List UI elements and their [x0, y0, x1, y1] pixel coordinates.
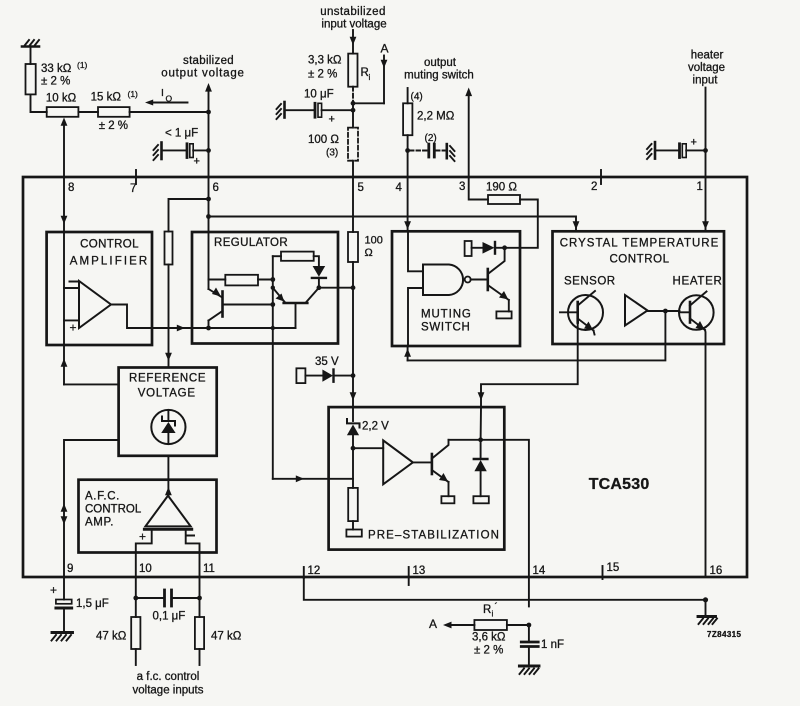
- node diode / Q1 collector / 190 Ohm: [502, 245, 507, 250]
- op-amp U1 triangle: [79, 281, 111, 328]
- wire pin 10 down: [135, 577, 137, 617]
- pin 7 tick: [135, 170, 137, 184]
- diode regulator (down): [312, 266, 326, 288]
- wire rail pin6 to crystal block with down arrow: [209, 217, 580, 232]
- wire pin 4 top with (4) label: [408, 88, 423, 103]
- svg-text:11: 11: [203, 563, 215, 575]
- wire control amp rail to reference (up arrow): [61, 345, 119, 384]
- svg-text:3: 3: [459, 181, 465, 193]
- wire pin6 to R base resistor: [209, 279, 226, 281]
- node output / pin5 rail: [351, 285, 356, 290]
- label a.f.c. control voltage inputs: [133, 671, 204, 697]
- svg-text:TCA530: TCA530: [589, 476, 650, 493]
- wire Q4 collector rail to output node: [449, 439, 481, 441]
- resistor pre-stab: [348, 488, 358, 521]
- svg-text:PRE–STABILIZATION: PRE–STABILIZATION: [368, 530, 500, 542]
- wire gate input 1: [408, 231, 423, 271]
- resistor between blocks (pin6 to ref): [165, 199, 209, 265]
- minus label afc: [187, 535, 195, 537]
- svg-text:+: +: [50, 583, 57, 597]
- vertical rail inside regulator down to pre-stabilization: [272, 256, 274, 479]
- svg-text:7: 7: [130, 183, 136, 195]
- svg-text:CONTROL: CONTROL: [609, 254, 669, 266]
- wire muting output down to rail with up arrow: [404, 346, 411, 360]
- zener reference (circle): [151, 410, 185, 444]
- node 35V junction: [351, 373, 356, 378]
- wire 10k to 15k: [78, 111, 98, 113]
- wire pin 4 into muting switch with down arrow: [404, 177, 411, 231]
- svg-text:(1): (1): [77, 60, 88, 70]
- transistor Q1 collector: [488, 248, 505, 274]
- svg-text:1 nF: 1 nF: [541, 639, 564, 651]
- svg-text:± 2 %: ± 2 %: [308, 69, 337, 81]
- node heater cap / pin1: [703, 148, 708, 153]
- svg-text:100 Ω: 100 Ω: [308, 134, 339, 146]
- svg-text:13: 13: [413, 565, 426, 577]
- svg-text:stabilized: stabilized: [183, 55, 234, 67]
- amplifier A3 triangle: [383, 440, 413, 484]
- svg-text:+: +: [329, 114, 335, 126]
- wire op-amp output to regulator with right arrow: [111, 305, 296, 332]
- svg-text:< 1 μF: < 1 μF: [165, 128, 198, 140]
- block CRYSTAL TEMPERATURE CONTROL: [553, 231, 725, 344]
- svg-text:10: 10: [139, 563, 152, 575]
- resistor 190 Ohm: [486, 182, 520, 205]
- svg-text:7Z84315: 7Z84315: [707, 630, 742, 639]
- node (2)-cap / pin4 line: [405, 148, 410, 153]
- transistor T2 base bar: [284, 302, 308, 305]
- svg-text:output: output: [424, 57, 457, 69]
- capacitor 10 uF with ground: [277, 89, 354, 126]
- transistor T2 (power pnp) emitter leg: [271, 286, 285, 303]
- resistor regulator left: [225, 275, 258, 286]
- arrow into pre-stab top: [478, 392, 485, 400]
- node diode / collector T2: [317, 285, 322, 290]
- wire heater emitter down to pin 16: [704, 330, 707, 577]
- dashed wire Ri bottom: [352, 87, 354, 104]
- svg-text:190 Ω: 190 Ω: [486, 182, 517, 194]
- transistor Q1 base bar: [486, 269, 489, 290]
- svg-text:35 V: 35 V: [315, 356, 339, 368]
- wire sensor entry inside box: [480, 407, 482, 440]
- wire non-inverting input stub: [64, 319, 79, 321]
- svg-text:REGULATOR: REGULATOR: [214, 237, 288, 249]
- svg-text:VOLTAGE: VOLTAGE: [138, 388, 196, 400]
- svg-text:9: 9: [67, 563, 73, 575]
- terminal under diode: [473, 496, 488, 503]
- svg-text:6: 6: [213, 182, 219, 194]
- svg-text:+: +: [70, 321, 77, 335]
- svg-text:output voltage: output voltage: [161, 68, 244, 80]
- label unstabilized input voltage: [320, 6, 386, 31]
- svg-text:1: 1: [697, 181, 703, 193]
- nand gate U2: [423, 265, 471, 296]
- wire node A to 100 Ohm (3): [352, 103, 354, 127]
- pin 13 tick: [408, 567, 410, 585]
- terminal resistor under Q1 emitter: [496, 311, 511, 318]
- wire pin 8 into control amplifier with down arrow: [61, 177, 68, 232]
- block REFERENCE VOLTAGE: [119, 368, 217, 456]
- svg-text:voltage: voltage: [688, 62, 725, 74]
- zener 2,2 V: [347, 407, 389, 448]
- wire amp output to heater base: [648, 310, 680, 312]
- capacitor 1 nF with ground: [519, 625, 564, 674]
- resistor Ri' 3,6 kOhm +-2% with A arrow: [429, 601, 529, 657]
- wire pin6 rail into regulator: [208, 177, 210, 280]
- svg-text:(2): (2): [425, 133, 437, 144]
- pin 15 tick: [602, 566, 604, 579]
- wire gate input 2 down to box bottom: [408, 288, 423, 346]
- svg-text:16: 16: [710, 565, 723, 577]
- svg-text:input: input: [693, 75, 719, 87]
- svg-text:+: +: [194, 156, 200, 168]
- capacitor heater input with ground: [647, 137, 706, 160]
- ground (top-left, above 33k): [22, 40, 39, 64]
- svg-text:A: A: [429, 617, 437, 631]
- resistor 100 Ohm (3) dashed optional: [308, 128, 358, 177]
- wire unstabilized input with down arrow: [350, 30, 357, 54]
- wire 33k bottom to 10k: [31, 94, 47, 112]
- svg-text:± 2 %: ± 2 %: [474, 645, 503, 657]
- IC outline TCA530: [23, 177, 747, 577]
- svg-text:47 kΩ: 47 kΩ: [96, 631, 127, 643]
- svg-text:SENSOR: SENSOR: [564, 276, 616, 288]
- svg-text:voltage inputs: voltage inputs: [133, 685, 204, 697]
- node A-wire / Ri line: [351, 101, 356, 106]
- wire sensor down to pre-stabilization entry: [481, 323, 578, 408]
- wire 190 Ohm to muting diode node: [505, 200, 538, 248]
- block REGULATOR: [192, 232, 338, 344]
- transistor Q1 emitter with arrow: [488, 285, 509, 311]
- svg-text:2,2 V: 2,2 V: [362, 421, 389, 433]
- transistor T1 base bar: [221, 292, 224, 317]
- wire pin 9 rail to reference: [64, 440, 119, 577]
- resistor 47 kOhm (pin 10): [96, 617, 140, 665]
- node zener / amp input: [351, 446, 356, 451]
- transistor Q4 emitter with arrow: [432, 470, 449, 496]
- resistor 47 kOhm (pin 11): [195, 617, 242, 665]
- svg-text:unstabilized: unstabilized: [320, 6, 386, 18]
- node pre-stab output: [478, 437, 483, 442]
- transistor T1 base wire: [224, 304, 273, 306]
- diode 35 V with terminal: [296, 356, 353, 383]
- transistor Q2 sensor: [560, 291, 603, 335]
- wire resistor down to reference voltage with down arrow: [165, 265, 172, 368]
- wire pin 3 output with up arrow: [465, 88, 472, 178]
- svg-text:HEATER: HEATER: [673, 276, 723, 288]
- terminal under resistor: [346, 521, 361, 537]
- block PRE-STABILIZATION: [329, 407, 505, 549]
- current IQ arrow: [145, 87, 188, 106]
- svg-text:± 2 %: ± 2 %: [99, 120, 128, 132]
- wire 2,2M bottom to pin 4: [407, 135, 409, 177]
- resistor 10 kOhm: [46, 93, 79, 117]
- terminal under Q4 emitter: [441, 496, 454, 503]
- svg-text:5: 5: [358, 182, 364, 194]
- svg-text:i: i: [369, 72, 371, 82]
- svg-text:100: 100: [365, 235, 383, 247]
- svg-text:(4): (4): [411, 92, 423, 103]
- svg-text:(3): (3): [326, 148, 338, 159]
- node 15k/pin6: [206, 110, 211, 115]
- label heater voltage input: [688, 50, 725, 87]
- svg-text:8: 8: [68, 182, 74, 194]
- svg-text:A.F.C.: A.F.C.: [85, 491, 120, 503]
- wire afc input pin 10: [136, 529, 152, 577]
- svg-text:10 kΩ: 10 kΩ: [46, 93, 77, 105]
- svg-text:AMPLIFIER: AMPLIFIER: [70, 256, 150, 268]
- svg-text:15 kΩ: 15 kΩ: [91, 92, 122, 104]
- svg-text:SWITCH: SWITCH: [421, 322, 471, 334]
- node 10uF / Ri line: [351, 108, 356, 113]
- wire gate output to Q1 base: [471, 279, 487, 281]
- svg-text:+: +: [139, 530, 146, 544]
- wire pin 5 into 100 Ohm: [352, 177, 354, 232]
- svg-text:47 kΩ: 47 kΩ: [211, 631, 242, 643]
- wire pre-stab output to pin 14: [481, 440, 529, 607]
- svg-text:I: I: [161, 87, 164, 99]
- wire pin 6 with up arrow (stabilized output): [205, 83, 212, 177]
- svg-text:10 μF: 10 μF: [304, 89, 334, 101]
- svg-text:2: 2: [591, 181, 597, 193]
- label stabilized output voltage: [161, 55, 244, 80]
- transistor T1 collector: [209, 311, 223, 328]
- amplifier A2 triangle: [625, 295, 648, 326]
- resistor 15 kOhm (1) +-2%: [91, 89, 138, 132]
- svg-text:2,2 MΩ: 2,2 MΩ: [417, 111, 455, 123]
- svg-text:15: 15: [607, 562, 620, 574]
- node T1 base / rail: [270, 302, 275, 307]
- svg-text:input voltage: input voltage: [321, 19, 386, 31]
- wire pin 12 rail to ground node: [304, 577, 706, 600]
- svg-text:0,1 μF: 0,1 μF: [153, 611, 186, 623]
- wire pin 11 down: [199, 577, 201, 617]
- resistor Ri 3,3 kOhm +-2%: [308, 54, 371, 87]
- wire afc input pin 11: [186, 529, 200, 577]
- diode muting with terminal: [465, 241, 505, 256]
- node rail / output wire: [271, 326, 275, 330]
- resistor regulator top: [273, 252, 319, 266]
- svg-text:CONTROL: CONTROL: [85, 504, 142, 516]
- svg-text:(1): (1): [128, 89, 139, 99]
- node rail top: [270, 277, 275, 282]
- wire pin 1 heater input: [705, 88, 707, 177]
- node 0,1uF right: [197, 596, 202, 601]
- capacitor < 1 uF with ground: [154, 128, 209, 168]
- capacitor 1,5 uF with ground (pin 9): [50, 577, 109, 641]
- transistor T1 (pnp) emitter: [209, 280, 222, 298]
- node 0,1uF left: [133, 596, 138, 601]
- double arrows afc rail: [61, 504, 68, 525]
- pin 2 tick: [600, 170, 602, 184]
- wire node down to resistor: [352, 448, 354, 488]
- node pin6 / rail to muting: [206, 214, 211, 219]
- svg-text:Q: Q: [166, 94, 173, 104]
- wire T2 base down to control rail: [295, 303, 297, 328]
- wire resistor to rail node: [258, 279, 273, 281]
- transistor T2 collector leg: [306, 288, 319, 302]
- node Ri' / 1nF / pin 14: [527, 623, 532, 628]
- svg-text:3,6 kΩ: 3,6 kΩ: [472, 632, 506, 644]
- svg-text:AMP.: AMP.: [85, 517, 114, 529]
- svg-text:12: 12: [308, 565, 321, 577]
- svg-text:A: A: [381, 42, 389, 56]
- transistor Q4 base bar: [431, 454, 434, 474]
- svg-text:MUTING: MUTING: [421, 309, 472, 321]
- diode pre-stab right (up): [474, 440, 488, 496]
- svg-text:14: 14: [533, 565, 546, 577]
- pin 12 tick: [303, 567, 305, 578]
- wire reference bottom to AFC amp with up arrow: [165, 456, 172, 496]
- svg-text:1,5 μF: 1,5 μF: [76, 598, 109, 610]
- capacitor (2) dashed with ground: [410, 133, 455, 161]
- resistor 100 Ohm internal: [348, 232, 383, 262]
- svg-text:CONTROL: CONTROL: [80, 239, 139, 251]
- node <1uF / pin6: [206, 148, 211, 153]
- wire node to amp A3: [353, 447, 383, 449]
- block CONTROL AMPLIFIER: [47, 232, 152, 345]
- block A.F.C. CONTROL AMP.: [79, 480, 217, 553]
- svg-text:+: +: [691, 137, 697, 149]
- node pin 16 / ground rail: [703, 597, 708, 602]
- resistor 33 kOhm (1) +-2%: [26, 60, 88, 94]
- svg-text:Ω: Ω: [365, 247, 373, 259]
- svg-text:muting switch: muting switch: [404, 70, 474, 82]
- terminal A (to Ri') with down arrow: [353, 42, 389, 104]
- svg-text:33 kΩ: 33 kΩ: [41, 63, 72, 75]
- wire pin5 rail down to pre-stabilization with down arrow: [350, 262, 357, 407]
- wire pin 1 into crystal block with down arrow: [702, 177, 709, 231]
- op-amp A4 triangle (afc): [144, 496, 192, 530]
- wire input rail inside control amp: [63, 232, 65, 345]
- svg-text:3,3 kΩ: 3,3 kΩ: [308, 55, 342, 67]
- svg-text:4: 4: [396, 182, 403, 194]
- wire regulator output to pin 5 rail: [319, 287, 353, 289]
- resistor 2,2 MOhm: [403, 103, 455, 135]
- pin 8 tap wire with up arrow into 10k: [61, 118, 68, 178]
- svg-text:REFERENCE: REFERENCE: [129, 373, 206, 385]
- ground pin 16: [698, 600, 717, 624]
- svg-text:i: i: [492, 609, 494, 619]
- wire inverting input stub: [64, 287, 79, 289]
- wire 15k to pin6 node: [130, 111, 209, 113]
- block MUTING SWITCH: [392, 231, 520, 346]
- capacitor 0,1 uF: [136, 590, 200, 623]
- wire amp output to Q4 base: [413, 461, 431, 463]
- transistor Q3 heater: [679, 292, 714, 331]
- svg-text:± 2 %: ± 2 %: [41, 76, 70, 88]
- svg-text:a f.c. control: a f.c. control: [137, 671, 200, 683]
- wire rail into pre-stab (left entry) with right arrow: [273, 475, 353, 482]
- wire pin 3 to 190 Ohm: [469, 177, 488, 200]
- node T1 collector / output wire: [206, 326, 211, 331]
- label output muting switch: [404, 57, 474, 82]
- svg-text:heater: heater: [691, 50, 724, 62]
- node amp / heater base wire: [663, 309, 668, 314]
- node resistor wire / pin6 rail: [206, 197, 211, 202]
- svg-text:R: R: [483, 604, 491, 616]
- svg-text:´: ´: [495, 601, 498, 613]
- transistor Q4 collector: [432, 440, 449, 459]
- wire rail muting to heater base: [408, 311, 666, 360]
- svg-text:CRYSTAL TEMPERATURE: CRYSTAL TEMPERATURE: [560, 238, 720, 250]
- minus label: [70, 281, 78, 283]
